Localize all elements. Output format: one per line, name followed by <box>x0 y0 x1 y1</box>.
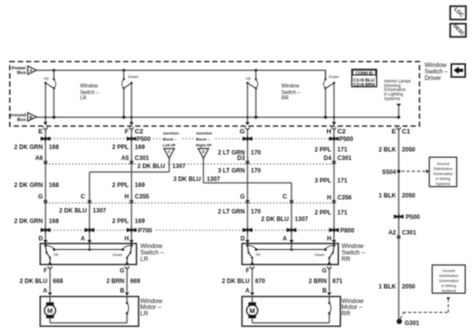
svg-text:LR: LR <box>80 96 87 102</box>
svg-text:168: 168 <box>49 183 60 189</box>
svg-text:G: G <box>120 268 125 274</box>
svg-text:2 BRN: 2 BRN <box>309 279 327 285</box>
svg-text:Left I/P: Left I/P <box>163 143 176 148</box>
svg-text:F: F <box>44 268 48 274</box>
svg-text:668: 668 <box>53 279 64 285</box>
svg-text:170: 170 <box>251 168 262 174</box>
svg-text:Junction: Junction <box>163 131 180 136</box>
svg-text:H: H <box>327 129 332 136</box>
svg-text:3 PPL: 3 PPL <box>315 178 332 184</box>
svg-text:3 LT GRN: 3 LT GRN <box>218 168 245 174</box>
svg-text:Bus: Bus <box>17 70 26 76</box>
svg-text:Block –: Block – <box>196 137 211 142</box>
svg-text:Driver: Driver <box>425 75 442 82</box>
svg-text:CONN ID: CONN ID <box>355 70 372 75</box>
svg-text:C2: C2 <box>337 129 346 136</box>
svg-text:A: A <box>30 68 33 73</box>
svg-text:C355: C355 <box>135 195 150 201</box>
svg-text:169: 169 <box>135 145 146 151</box>
svg-text:Right I/P: Right I/P <box>196 143 212 148</box>
svg-text:Up: Up <box>44 76 50 81</box>
svg-text:H: H <box>327 196 331 202</box>
svg-text:2 DK BLU: 2 DK BLU <box>137 164 165 170</box>
svg-text:P700: P700 <box>138 229 153 235</box>
svg-text:170: 170 <box>251 209 262 215</box>
svg-text:Down: Down <box>128 74 138 79</box>
svg-text:2050: 2050 <box>402 285 416 291</box>
svg-text:1307: 1307 <box>172 164 186 170</box>
svg-text:169: 169 <box>135 183 146 189</box>
svg-text:2050: 2050 <box>402 147 416 153</box>
svg-text:P500: P500 <box>137 137 152 143</box>
svg-text:C: C <box>81 195 86 201</box>
svg-text:Down: Down <box>329 74 339 79</box>
svg-text:Systems: Systems <box>441 289 456 293</box>
svg-text:2 PPL: 2 PPL <box>112 145 129 151</box>
svg-text:170: 170 <box>251 151 262 157</box>
svg-text:2 PPL: 2 PPL <box>112 183 129 189</box>
svg-text:A: A <box>245 288 250 294</box>
svg-text:Window: Window <box>281 84 299 90</box>
svg-text:C2: C2 <box>135 129 144 136</box>
svg-text:Ground: Ground <box>442 269 455 273</box>
svg-text:D4: D4 <box>324 156 332 162</box>
svg-text:1307: 1307 <box>93 208 107 214</box>
svg-text:C2=6 BRN: C2=6 BRN <box>353 82 375 87</box>
svg-text:S504: S504 <box>382 170 397 176</box>
svg-text:A5: A5 <box>121 156 129 162</box>
svg-text:in Wiring: in Wiring <box>441 284 456 288</box>
svg-text:P500: P500 <box>406 215 421 221</box>
svg-text:RR: RR <box>342 311 351 318</box>
svg-text:C: C <box>168 149 171 154</box>
svg-text:P500: P500 <box>339 137 354 143</box>
svg-text:F: F <box>125 129 129 136</box>
svg-text:P800: P800 <box>340 229 355 235</box>
svg-text:1 BLK: 1 BLK <box>379 194 397 200</box>
svg-text:2 DK BLU: 2 DK BLU <box>261 217 289 223</box>
svg-text:Schematics: Schematics <box>433 172 453 176</box>
svg-text:A6: A6 <box>35 156 43 162</box>
svg-text:Junction: Junction <box>196 131 213 136</box>
svg-text:2 DK BLU: 2 DK BLU <box>59 208 87 214</box>
svg-text:670: 670 <box>255 279 266 285</box>
svg-text:G: G <box>240 129 245 136</box>
svg-text:C356: C356 <box>337 196 352 202</box>
svg-text:Ground: Ground <box>437 162 450 166</box>
svg-text:D: D <box>38 236 43 242</box>
svg-text:E: E <box>38 129 43 136</box>
svg-text:C301: C301 <box>337 156 352 162</box>
svg-text:2050: 2050 <box>402 194 416 200</box>
svg-text:2 PPL: 2 PPL <box>315 210 332 216</box>
svg-text:M: M <box>249 308 255 315</box>
svg-text:H: H <box>124 236 128 242</box>
svg-text:171: 171 <box>337 147 348 153</box>
svg-text:1307: 1307 <box>295 217 309 223</box>
svg-text:Distribution: Distribution <box>434 167 453 171</box>
svg-text:C301: C301 <box>135 156 150 162</box>
svg-text:Window: Window <box>80 84 98 90</box>
svg-text:H: H <box>327 236 331 242</box>
svg-text:171: 171 <box>337 210 348 216</box>
svg-text:RR: RR <box>281 96 289 102</box>
svg-text:B: B <box>120 288 125 294</box>
svg-text:B: B <box>322 288 327 294</box>
svg-text:M: M <box>47 308 53 315</box>
svg-text:Down: Down <box>113 253 123 257</box>
svg-text:2 DK BLU: 2 DK BLU <box>20 279 48 285</box>
svg-text:C1: C1 <box>402 129 411 136</box>
svg-text:Up: Up <box>246 76 252 81</box>
svg-text:2 LT GRN: 2 LT GRN <box>218 209 245 215</box>
svg-text:in Wiring: in Wiring <box>436 177 451 181</box>
svg-text:Bus: Bus <box>17 117 26 123</box>
svg-text:169: 169 <box>135 219 146 225</box>
svg-text:C301: C301 <box>402 231 417 237</box>
svg-text:2 DK GRN: 2 DK GRN <box>14 145 43 151</box>
svg-text:A: A <box>283 236 288 242</box>
svg-text:Block –: Block – <box>163 137 178 142</box>
svg-text:1307: 1307 <box>207 177 221 183</box>
svg-text:2 DK GRN: 2 DK GRN <box>14 183 43 189</box>
svg-text:Up: Up <box>256 253 261 257</box>
svg-text:D3: D3 <box>237 156 245 162</box>
svg-text:C: C <box>283 195 288 201</box>
svg-text:H: H <box>124 195 128 201</box>
svg-text:A: A <box>43 288 48 294</box>
svg-text:LR: LR <box>140 256 148 263</box>
svg-text:2 BRN: 2 BRN <box>106 279 124 285</box>
svg-text:2 BLK: 2 BLK <box>379 147 397 153</box>
svg-text:669: 669 <box>130 279 141 285</box>
svg-text:Systems: Systems <box>384 96 400 101</box>
svg-text:B: B <box>30 115 33 120</box>
svg-text:671: 671 <box>333 279 344 285</box>
svg-text:G: G <box>240 195 245 201</box>
svg-text:2 DK GRN: 2 DK GRN <box>14 219 43 225</box>
svg-text:Systems: Systems <box>436 182 451 186</box>
svg-text:RR: RR <box>342 256 351 263</box>
svg-text:3 DK BLU: 3 DK BLU <box>173 177 201 183</box>
svg-text:G: G <box>38 195 43 201</box>
svg-text:E: E <box>392 129 397 136</box>
svg-text:1 BLK: 1 BLK <box>379 285 397 291</box>
svg-text:D: D <box>202 149 205 154</box>
svg-text:LR: LR <box>140 311 148 318</box>
svg-text:2 PPL: 2 PPL <box>112 219 129 225</box>
svg-text:2 DK BLU: 2 DK BLU <box>222 279 250 285</box>
svg-text:Schematics: Schematics <box>439 279 459 283</box>
svg-text:Distribution: Distribution <box>439 274 458 278</box>
svg-text:Up: Up <box>53 253 58 257</box>
svg-text:D: D <box>240 236 245 242</box>
svg-text:171: 171 <box>337 178 348 184</box>
svg-text:G301: G301 <box>405 321 420 327</box>
svg-text:168: 168 <box>49 145 60 151</box>
svg-text:A: A <box>81 236 86 242</box>
svg-text:F: F <box>246 268 250 274</box>
svg-text:G: G <box>322 268 327 274</box>
svg-text:A2: A2 <box>388 231 396 237</box>
svg-text:Down: Down <box>315 253 325 257</box>
svg-text:2 PPL: 2 PPL <box>315 147 332 153</box>
svg-text:168: 168 <box>49 219 60 225</box>
